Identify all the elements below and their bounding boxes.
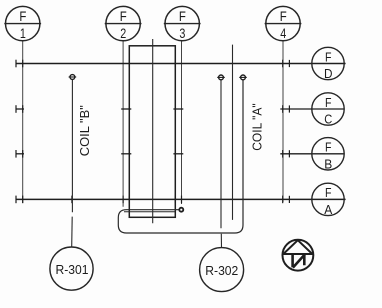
svg-text:C: C (324, 112, 332, 127)
svg-text:R-302: R-302 (205, 263, 238, 278)
svg-text:F: F (179, 8, 186, 24)
svg-text:COIL "A": COIL "A" (250, 103, 265, 151)
svg-text:F: F (325, 185, 332, 200)
svg-text:R-301: R-301 (56, 262, 89, 277)
svg-text:COIL "B": COIL "B" (77, 105, 92, 156)
svg-text:F: F (19, 8, 26, 24)
svg-text:F: F (325, 95, 332, 110)
svg-text:F: F (120, 8, 127, 24)
svg-text:D: D (324, 66, 333, 81)
svg-text:F: F (325, 140, 332, 155)
svg-text:3: 3 (179, 25, 185, 41)
svg-text:F: F (325, 49, 332, 64)
svg-text:1: 1 (20, 25, 26, 41)
svg-text:B: B (324, 156, 332, 171)
svg-text:F: F (280, 8, 287, 24)
svg-text:4: 4 (280, 25, 286, 41)
svg-text:A: A (324, 202, 332, 217)
svg-text:2: 2 (120, 25, 126, 41)
